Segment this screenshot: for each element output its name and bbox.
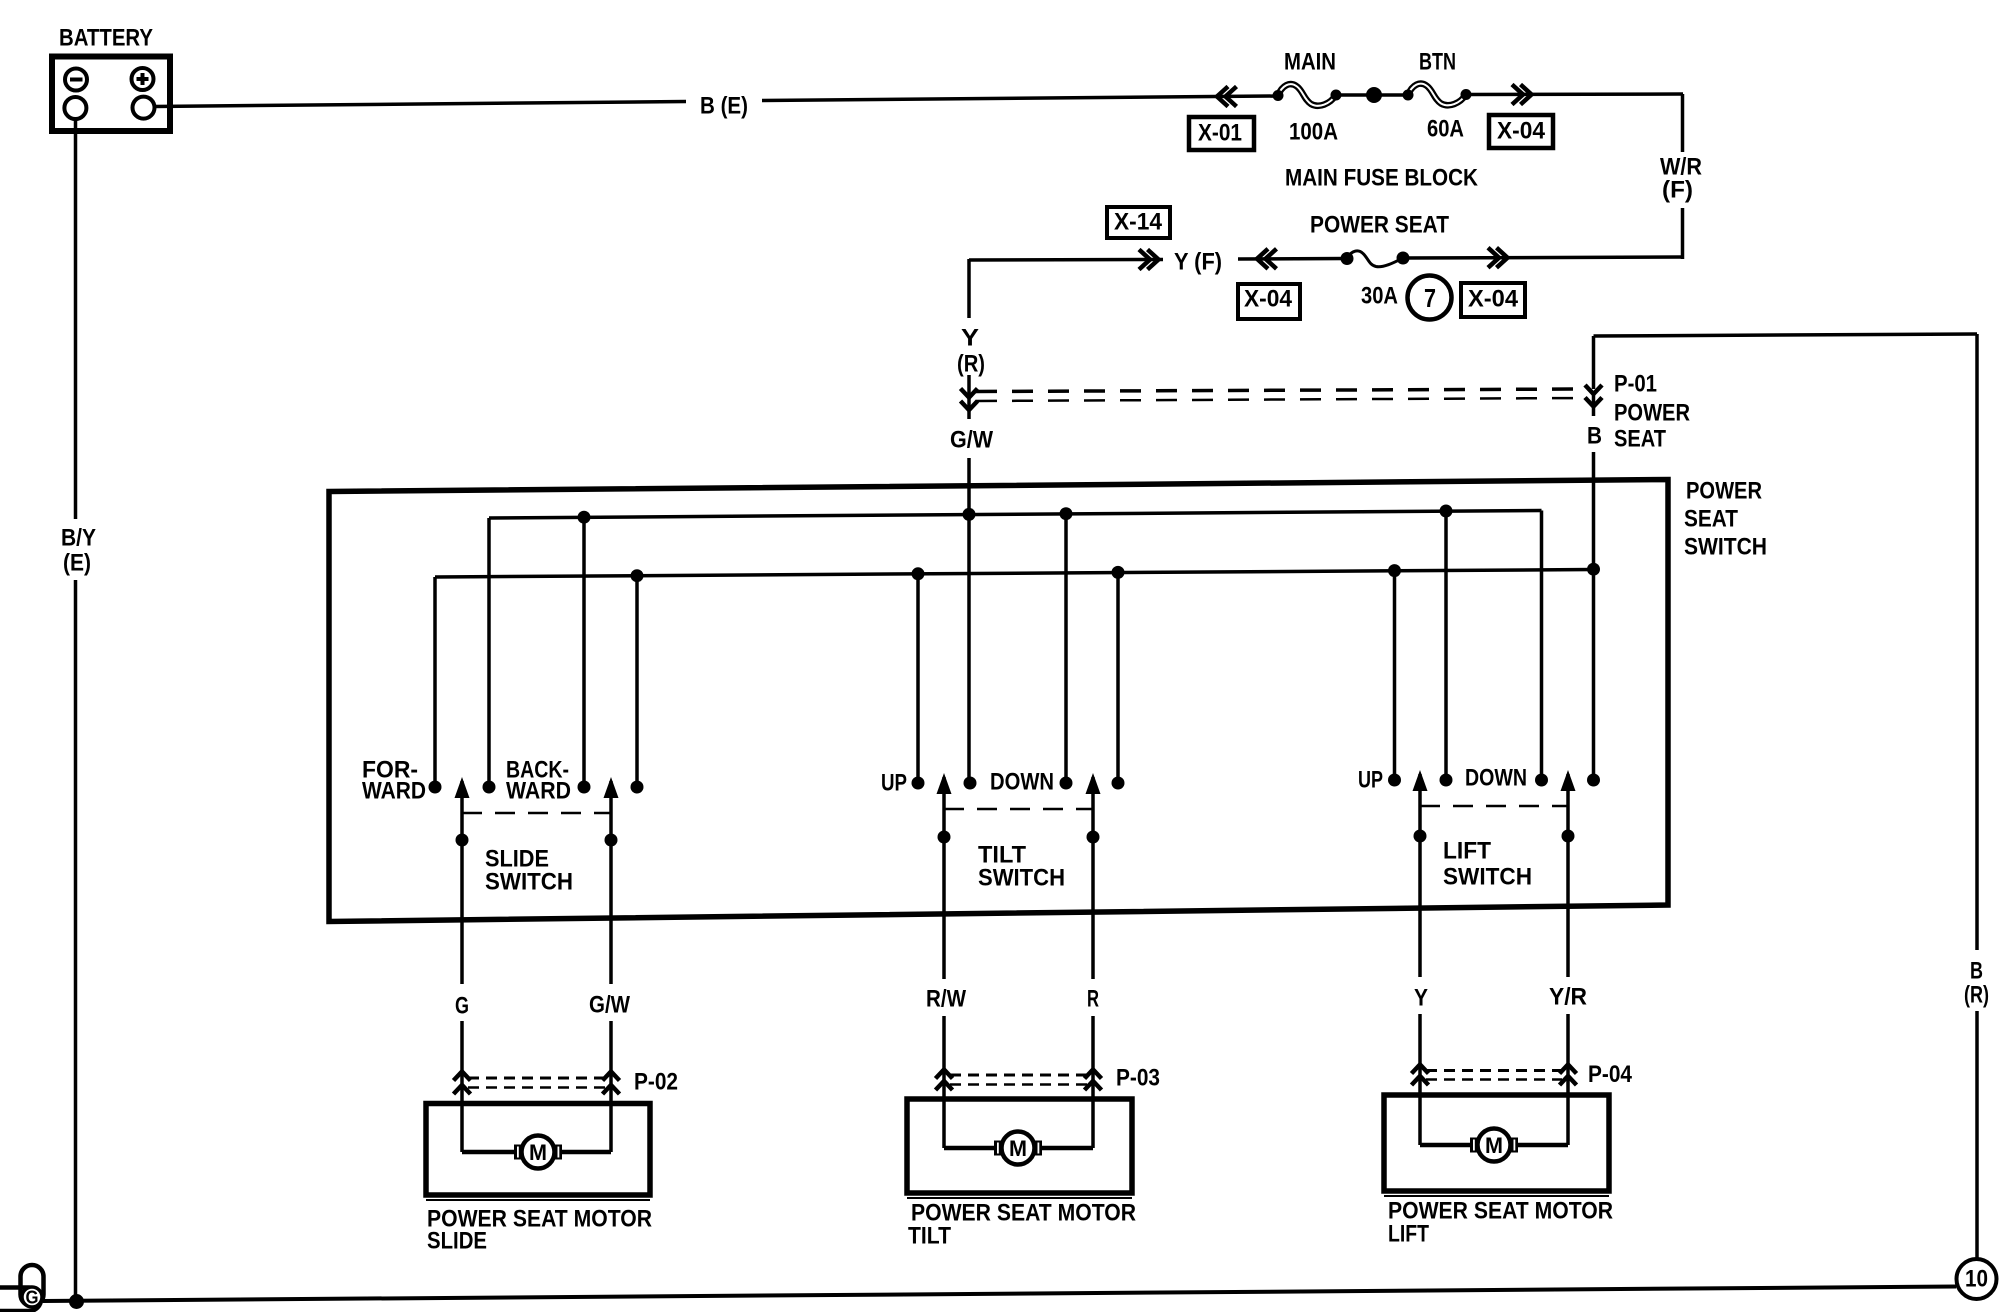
svg-text:M: M (1485, 1133, 1503, 1158)
svg-text:B (E): B (E) (700, 93, 748, 120)
svg-text:MAIN: MAIN (1284, 49, 1336, 76)
svg-text:SEAT: SEAT (1614, 426, 1666, 453)
svg-text:BATTERY: BATTERY (59, 25, 153, 52)
svg-text:R/W: R/W (926, 986, 966, 1013)
svg-text:X-04: X-04 (1497, 118, 1546, 145)
svg-text:WARD: WARD (362, 778, 426, 805)
svg-text:LIFT: LIFT (1443, 838, 1491, 865)
svg-text:(F): (F) (1662, 177, 1693, 204)
svg-text:SWITCH: SWITCH (978, 865, 1065, 892)
svg-text:R: R (1087, 986, 1099, 1013)
svg-text:P-01: P-01 (1614, 371, 1657, 398)
svg-text:SWITCH: SWITCH (1684, 534, 1767, 561)
svg-text:Y: Y (961, 325, 979, 352)
svg-text:UP: UP (881, 770, 907, 797)
svg-text:X-04: X-04 (1468, 286, 1519, 313)
svg-text:MAIN FUSE BLOCK: MAIN FUSE BLOCK (1285, 165, 1479, 192)
svg-text:X-14: X-14 (1114, 209, 1163, 236)
svg-text:TILT: TILT (908, 1223, 951, 1250)
svg-text:P-04: P-04 (1588, 1061, 1633, 1088)
svg-text:B: B (1970, 958, 1983, 985)
svg-text:POWER SEAT: POWER SEAT (1310, 212, 1449, 239)
svg-text:LIFT: LIFT (1388, 1221, 1429, 1248)
svg-text:UP: UP (1358, 767, 1383, 794)
svg-text:60A: 60A (1427, 116, 1464, 143)
svg-text:P-02: P-02 (634, 1069, 678, 1096)
svg-text:(R): (R) (957, 351, 985, 378)
svg-text:DOWN: DOWN (990, 769, 1054, 796)
svg-text:Y: Y (1414, 985, 1428, 1012)
svg-text:100A: 100A (1289, 119, 1338, 146)
svg-text:M: M (529, 1140, 547, 1165)
svg-text:G/W: G/W (589, 992, 630, 1019)
svg-text:B: B (1587, 423, 1602, 450)
svg-text:30A: 30A (1361, 283, 1398, 310)
svg-text:G: G (26, 1288, 39, 1308)
svg-text:SLIDE: SLIDE (427, 1228, 487, 1255)
svg-text:P-03: P-03 (1116, 1065, 1160, 1092)
svg-text:M: M (1009, 1136, 1027, 1161)
svg-text:Y (F): Y (F) (1174, 249, 1222, 276)
svg-text:B/Y: B/Y (61, 525, 96, 552)
svg-text:DOWN: DOWN (1465, 765, 1527, 792)
svg-text:(R): (R) (1964, 982, 1989, 1009)
svg-text:X-01: X-01 (1198, 120, 1242, 147)
svg-text:(E): (E) (63, 550, 91, 577)
svg-text:X-04: X-04 (1244, 286, 1293, 313)
svg-text:POWER: POWER (1614, 400, 1690, 427)
svg-text:Y/R: Y/R (1549, 984, 1587, 1011)
svg-text:WARD: WARD (506, 778, 571, 805)
svg-text:SWITCH: SWITCH (1443, 864, 1532, 891)
svg-text:7: 7 (1424, 283, 1436, 313)
svg-text:BTN: BTN (1419, 49, 1456, 76)
svg-text:POWER: POWER (1686, 478, 1762, 505)
svg-text:10: 10 (1965, 1266, 1988, 1293)
svg-text:G/W: G/W (950, 427, 993, 454)
svg-text:G: G (455, 993, 469, 1020)
svg-text:SEAT: SEAT (1684, 506, 1738, 533)
svg-text:SWITCH: SWITCH (485, 869, 573, 896)
